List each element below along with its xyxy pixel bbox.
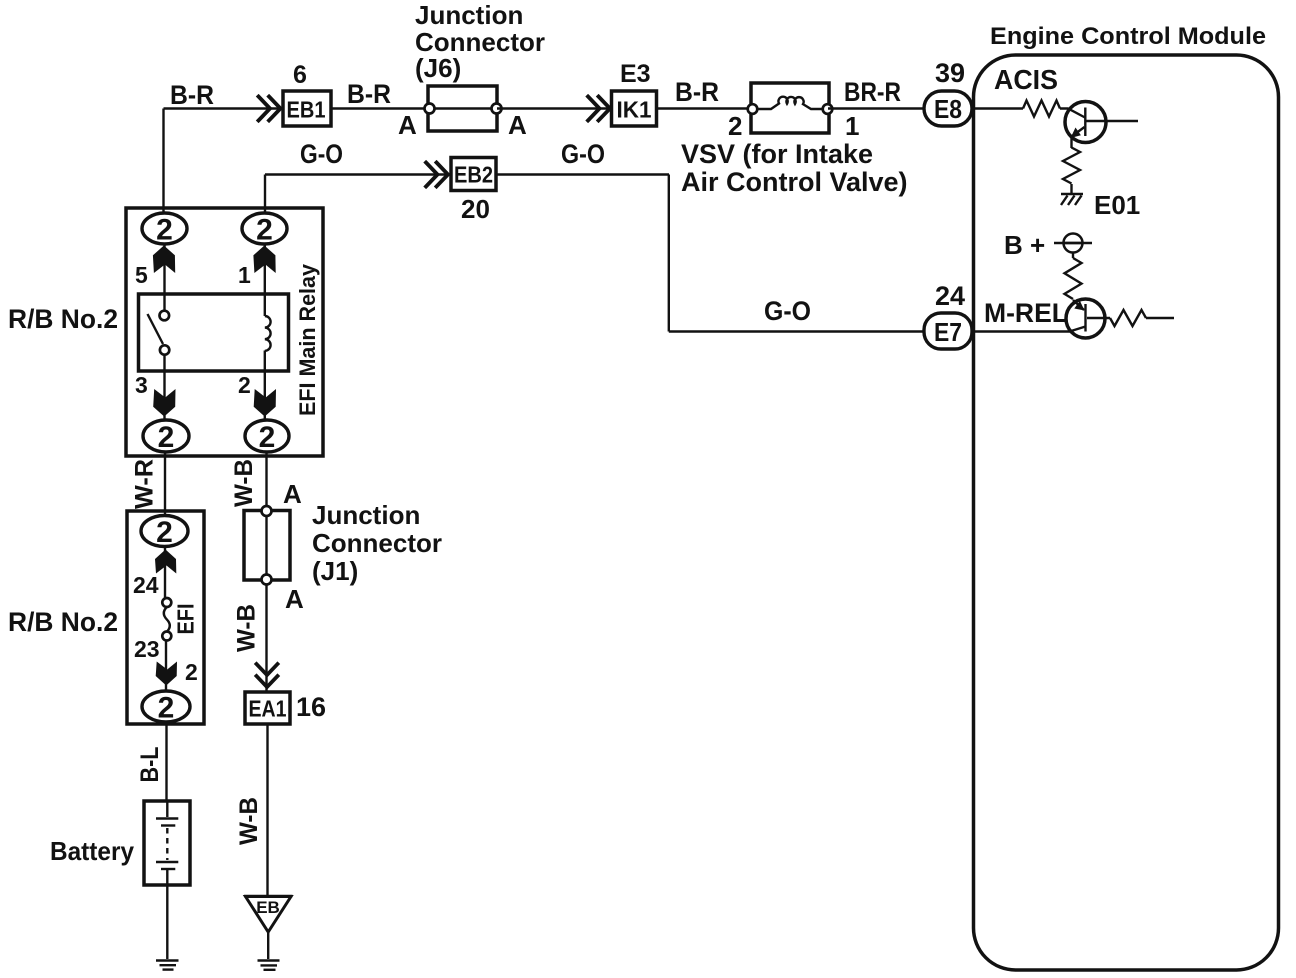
svg-text:R/B No.2: R/B No.2: [8, 304, 118, 334]
J6 right terminal circle: [492, 104, 502, 114]
wire EB to ground: [267, 932, 269, 959]
svg-text:5: 5: [135, 262, 148, 288]
ground point EB triangle: [246, 897, 292, 933]
svg-text:EFI Main Relay: EFI Main Relay: [295, 263, 320, 416]
battery internal top lead: [166, 801, 168, 817]
connector EB1: [283, 91, 331, 126]
relay inner box: [139, 294, 289, 371]
wire fuse internal bottom: [165, 640, 167, 692]
battery plate long (top): [156, 817, 178, 819]
svg-text:2: 2: [156, 516, 173, 549]
resistor below Q1 (vertical): [1063, 148, 1080, 184]
svg-text:EFI: EFI: [173, 604, 199, 635]
svg-text:BR-R: BR-R: [844, 77, 901, 107]
wire to ground E01: [1070, 184, 1072, 194]
relay pin 3 oval terminal 2: [143, 420, 189, 452]
connector IK1: [612, 91, 657, 126]
resistor below B+ (vertical): [1065, 258, 1082, 299]
svg-text:Battery: Battery: [50, 836, 135, 866]
resistor right of Q2: [1110, 310, 1146, 326]
wire W-R down from relay: [164, 452, 166, 517]
svg-text:B-L: B-L: [136, 747, 164, 783]
svg-text:W-B: W-B: [233, 604, 261, 652]
battery plate long (lower): [156, 861, 178, 863]
ground E01 symbol: [1061, 193, 1083, 195]
svg-text:EB1: EB1: [287, 97, 326, 123]
transistor Q2 collector diagonal to E7 wire: [1070, 327, 1086, 332]
svg-text:(J6): (J6): [415, 53, 461, 83]
svg-text:EA1: EA1: [249, 696, 287, 722]
svg-text:IK1: IK1: [617, 97, 652, 123]
Engine Control Module box: [974, 55, 1279, 970]
svg-text:EB: EB: [256, 898, 280, 917]
relay pin 1 oval terminal 2: [242, 213, 287, 244]
svg-text:A: A: [285, 584, 304, 614]
svg-text:2: 2: [259, 421, 276, 454]
wire B-R main horizontal run: [164, 107, 283, 109]
svg-text:3: 3: [135, 372, 148, 398]
J6 left terminal circle: [425, 104, 435, 114]
wire emitter down: [1070, 137, 1072, 148]
wire relay right internal (bottom): [264, 351, 266, 422]
svg-text:1: 1: [845, 111, 859, 141]
wire vertical corner down: [668, 175, 670, 332]
switch contact circle bottom: [160, 345, 169, 354]
wire IK1 to VSV: [657, 107, 754, 109]
wire E7 into ECM: [972, 330, 1070, 332]
fuse EFI top contact circle: [162, 598, 171, 607]
svg-text:EB2: EB2: [454, 162, 493, 188]
VSV left terminal circle: [748, 104, 758, 114]
ground symbol (EB): [258, 959, 280, 961]
svg-text:23: 23: [134, 636, 160, 662]
VSV coil: [757, 97, 823, 109]
black arrow up (fuse): [155, 550, 176, 574]
svg-text:W-R: W-R: [131, 459, 159, 509]
switch contact circle top: [160, 311, 170, 321]
svg-text:Engine Control Module: Engine Control Module: [990, 23, 1266, 50]
svg-text:(J1): (J1): [312, 556, 358, 586]
svg-text:2: 2: [256, 214, 273, 247]
svg-text:E3: E3: [620, 60, 651, 88]
transistor Q1 emitter with arrow: [1072, 127, 1085, 137]
battery plate short (bottom): [161, 868, 175, 870]
wire EB2 to corner: [496, 173, 669, 175]
svg-text:16: 16: [296, 692, 326, 722]
switch arm: [148, 314, 164, 344]
resistor R-ACIS horizontal: [1023, 101, 1060, 117]
wire through J1 interior: [265, 511, 267, 580]
wire battery to ground: [166, 885, 168, 959]
svg-text:B-R: B-R: [675, 77, 719, 107]
wire W-B from J1 down to EA1: [265, 585, 267, 693]
battery internal bottom lead: [166, 870, 168, 885]
relay block R/B No.2 outer box: [126, 208, 323, 456]
svg-text:2: 2: [156, 214, 173, 247]
fuse block bottom oval terminal 2: [142, 691, 190, 722]
svg-text:B +: B +: [1004, 230, 1045, 260]
wire relay left internal (top): [163, 244, 165, 311]
svg-text:B-R: B-R: [347, 79, 391, 109]
svg-text:2: 2: [728, 111, 742, 141]
svg-text:Junction: Junction: [415, 0, 523, 30]
svg-text:1: 1: [238, 262, 251, 288]
wire J6 to IK1: [497, 107, 611, 109]
svg-text:2: 2: [158, 692, 175, 725]
svg-text:M-REL: M-REL: [984, 298, 1068, 328]
battery box: [144, 801, 190, 885]
wire fuse internal top: [164, 547, 166, 600]
wire W-B from EA1 down to EB: [266, 724, 268, 897]
svg-text:B-R: B-R: [170, 80, 214, 110]
svg-text:VSV (for Intake: VSV (for Intake: [681, 139, 873, 169]
transistor Q2 base bar: [1084, 304, 1086, 332]
connector EA1: [245, 692, 290, 724]
ground symbol (battery): [156, 959, 179, 961]
transistor Q1 collector line: [1086, 120, 1139, 122]
wire through J6 interior: [429, 107, 497, 109]
wire horizontal to E7: [669, 330, 925, 332]
arrow chevrons into IK1: [588, 97, 610, 121]
black arrow up (right): [253, 246, 275, 274]
svg-text:G-O: G-O: [300, 139, 343, 169]
arrow chevrons into EB2: [426, 163, 448, 187]
wire B+ down to resistor: [1072, 253, 1074, 259]
arrow chevrons into EB1: [259, 97, 281, 121]
transistor Q1 (ACIS driver) circle: [1065, 102, 1106, 143]
transistor Q2 (M-REL driver) circle: [1066, 299, 1105, 338]
wire E8 into ECM: [972, 107, 1023, 109]
wire relay right internal (top): [264, 244, 266, 316]
ECM terminal E8: [924, 91, 972, 126]
svg-text:A: A: [508, 110, 527, 140]
svg-text:A: A: [283, 479, 302, 509]
svg-text:2: 2: [238, 372, 251, 398]
svg-text:E7: E7: [934, 317, 962, 347]
arrow chevrons down into EA1: [257, 664, 278, 687]
wire relay left internal (bottom): [163, 354, 165, 421]
fuse block R/B No.2 box: [127, 511, 204, 724]
fuse block top oval terminal 2: [141, 516, 188, 547]
B+ feed line: [1054, 242, 1092, 244]
svg-text:E01: E01: [1094, 190, 1140, 220]
black arrow up (left): [153, 246, 175, 274]
wire resistor to transistor base: [1060, 109, 1085, 118]
junction connector J1 box: [244, 511, 290, 581]
battery plate short (upper): [161, 824, 175, 826]
black arrow down (left): [153, 389, 175, 417]
svg-text:A: A: [398, 110, 417, 140]
G-O wire horizontal to EB2: [265, 173, 452, 175]
transistor Q2 base line with resistor: [1087, 317, 1110, 319]
svg-text:G-O: G-O: [764, 296, 811, 326]
svg-text:24: 24: [935, 281, 965, 311]
svg-text:2: 2: [185, 659, 198, 685]
relay pin 5 oval terminal 2: [142, 213, 187, 244]
svg-text:Connector: Connector: [312, 528, 442, 558]
black arrow down (fuse): [156, 662, 177, 686]
svg-text:E8: E8: [934, 94, 962, 124]
black arrow down (right): [254, 389, 276, 417]
svg-text:20: 20: [461, 194, 490, 224]
relay coil: [265, 316, 271, 351]
wire EB1 to J6: [331, 107, 430, 109]
J1 top terminal circle: [262, 506, 272, 516]
fuse EFI bottom contact circle: [162, 632, 171, 641]
svg-text:G-O: G-O: [561, 139, 605, 169]
svg-text:W-B: W-B: [235, 797, 263, 845]
fuse EFI element wavy: [164, 607, 170, 632]
VSV box: [751, 83, 829, 133]
svg-text:ACIS: ACIS: [994, 64, 1058, 95]
svg-text:Junction: Junction: [312, 500, 420, 530]
transistor Q1 base bar: [1084, 108, 1086, 137]
svg-text:39: 39: [935, 58, 965, 88]
svg-text:W-B: W-B: [230, 459, 258, 507]
svg-text:Air Control Valve): Air Control Valve): [681, 167, 908, 197]
wire VSV to E8: [828, 107, 925, 109]
wire vertical from B-R corner down to relay pin 5 oval: [162, 109, 164, 215]
battery dashed middle: [166, 828, 168, 860]
wire resistor to internal: [1146, 317, 1174, 319]
wire B-L down to battery: [165, 722, 167, 802]
wire W-B down from relay: [265, 452, 267, 511]
B+ circle symbol: [1064, 234, 1083, 253]
svg-text:24: 24: [133, 572, 159, 598]
G-O wire vertical from relay pin 1: [264, 175, 266, 215]
relay pin 2 oval terminal 2: [245, 420, 289, 452]
J1 bottom terminal circle: [262, 575, 272, 585]
svg-text:6: 6: [293, 61, 307, 89]
VSV right terminal circle: [823, 104, 833, 114]
transistor Q2 emitter from B+ with arrow: [1073, 300, 1084, 310]
svg-text:R/B No.2: R/B No.2: [8, 607, 118, 637]
connector EB2: [451, 158, 496, 191]
junction connector J6 box: [428, 86, 497, 131]
ECM terminal E7: [924, 313, 972, 349]
svg-text:2: 2: [158, 421, 175, 454]
